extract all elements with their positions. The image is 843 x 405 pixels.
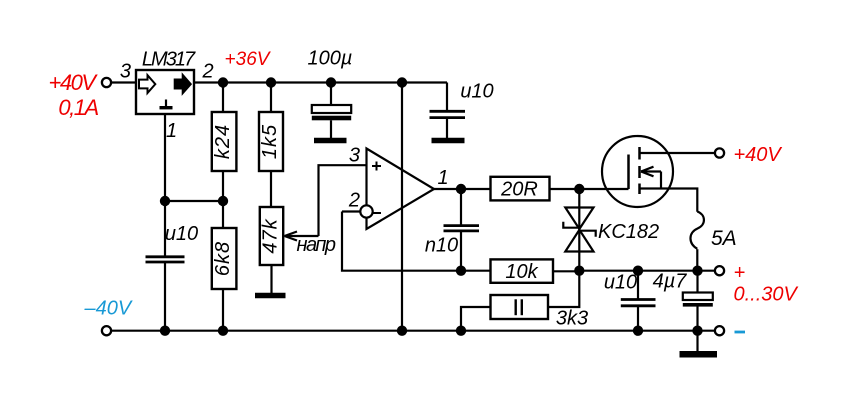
node rail u10-bottom: [633, 326, 643, 336]
node adjust-right: [218, 196, 228, 206]
wire k24 bottom leg: [222, 171, 224, 201]
terminal +40V right: [715, 148, 724, 157]
47k wiper arrow: [285, 232, 319, 241]
fuse 5A squiggle: [690, 212, 703, 249]
op-amp plus sign: [372, 162, 381, 171]
wire wiper riser to pin3: [319, 165, 367, 236]
svg-text:+: +: [734, 262, 746, 284]
capacitor u10 bottom legs: [637, 271, 639, 331]
svg-text:4µ7: 4µ7: [653, 271, 688, 293]
mosfet gate electrode: [627, 155, 630, 190]
LM317 output filled arrow: [175, 75, 191, 93]
svg-text:u10: u10: [604, 272, 637, 294]
op-amp U2 triangle: [367, 149, 435, 230]
svg-text:10k: 10k: [505, 261, 538, 283]
ground main: [680, 351, 718, 358]
node top k24: [218, 77, 228, 87]
label minus: [735, 331, 746, 334]
node adjust-left: [160, 196, 170, 206]
wire 1k5 to 47k: [270, 171, 272, 207]
wire input to LM317 pin 3: [111, 81, 136, 83]
svg-text:+40V: +40V: [49, 70, 99, 95]
svg-text:k24: k24: [212, 124, 234, 159]
terminal -40V: [102, 326, 111, 335]
svg-text:6k8: 6k8: [212, 241, 234, 276]
wire 10k row: [461, 270, 579, 273]
wire u10tr to ground: [446, 118, 448, 138]
node top supply: [397, 77, 407, 87]
svg-text:47k: 47k: [259, 218, 281, 253]
svg-text:+40V: +40V: [734, 144, 783, 166]
ground under u10 top-right: [432, 138, 465, 143]
capacitor u10 left: [146, 257, 185, 262]
ground under 100u: [314, 138, 347, 143]
svg-text:2: 2: [202, 61, 214, 83]
node output n10: [456, 184, 466, 194]
svg-text:LM317: LM317: [142, 49, 196, 71]
node feedback: [456, 266, 466, 276]
wire mosfet drain: [640, 152, 715, 154]
svg-text:KC182: KC182: [598, 221, 659, 243]
terminal input +40V: [102, 78, 111, 87]
svg-text:3k3: 3k3: [556, 308, 588, 330]
LM317 adjust symbol: [160, 100, 173, 110]
node gate-zener: [574, 184, 584, 194]
mosfet channel dashes: [638, 147, 641, 194]
node rail 3k3: [456, 326, 466, 336]
svg-text:напр: напр: [296, 234, 335, 256]
zener VD1 KC182 wire: [578, 189, 580, 271]
wire 20R to gate: [550, 188, 629, 190]
wire adjust row: [165, 200, 223, 202]
wire supply vertical: [401, 83, 403, 331]
svg-text:1: 1: [438, 167, 449, 189]
zener KC182 symbol: [563, 208, 595, 252]
node rail supply: [397, 326, 407, 336]
wire 3k3 left leg: [461, 307, 491, 331]
svg-text:u10: u10: [460, 81, 493, 103]
terminal minus output: [715, 326, 724, 335]
node rail ground: [692, 326, 702, 336]
svg-text:0,1A: 0,1A: [58, 95, 98, 120]
wire squiggle to plus: [696, 249, 698, 271]
regulator U1 LM317 body: [136, 70, 194, 114]
wire feedback pin2 down: [342, 212, 461, 271]
terminal plus output: [715, 266, 724, 275]
wire op-amp output: [434, 188, 490, 190]
resistor 1k5: [259, 112, 283, 171]
node top 100u: [326, 77, 336, 87]
wire 3k3 right leg: [548, 271, 579, 307]
wire 1k5 top leg: [270, 83, 272, 113]
svg-text:3: 3: [349, 145, 360, 167]
svg-text:5A: 5A: [711, 227, 737, 250]
wire 47k bottom leg: [270, 265, 272, 293]
wire output plus row: [579, 270, 715, 272]
wire 6k8 top leg: [222, 201, 224, 228]
wire k24 top leg: [222, 83, 224, 113]
transistor VT1 mosfet circle: [602, 136, 673, 207]
node rail 6k8: [218, 326, 228, 336]
node rail u10-left: [160, 326, 170, 336]
svg-text:20R: 20R: [500, 179, 538, 201]
op-amp minus sign: [372, 212, 381, 214]
wire ground stub: [696, 331, 698, 351]
wire LM317 pin1 leg: [164, 114, 166, 201]
node plus 4u7: [692, 266, 702, 276]
op-amp inverting bubble: [360, 205, 372, 217]
capacitor 100u leg: [330, 83, 332, 106]
ground under 47k: [255, 293, 286, 298]
capacitor u10 top-right: [430, 111, 466, 117]
resistor k24: [212, 112, 237, 171]
svg-text:3: 3: [120, 61, 131, 83]
resistor 10k: [491, 259, 554, 282]
wire bottom rail: [111, 330, 715, 332]
node zener bottom: [574, 266, 584, 276]
svg-text:u10: u10: [165, 223, 198, 245]
wire top rail +36V: [194, 81, 447, 83]
LM317 input open arrow: [139, 75, 155, 93]
wire u10 top-right leg: [446, 83, 448, 111]
resistor 20R: [491, 177, 550, 201]
svg-text:–40V: –40V: [84, 298, 133, 320]
wire 100u to ground: [330, 120, 332, 138]
mosfet substrate arrow: [641, 167, 661, 189]
wire pin2 stub: [342, 210, 360, 212]
capacitor 4u7 legs: [696, 271, 698, 331]
svg-text:1: 1: [166, 120, 177, 142]
svg-text:+36V: +36V: [225, 49, 272, 70]
resistor 3k3 2W: [491, 295, 549, 319]
capacitor n10 legs: [460, 189, 462, 271]
svg-text:0...30V: 0...30V: [734, 284, 799, 306]
capacitor 4u7 electrolytic: [683, 293, 713, 307]
potentiometer 47k: [260, 207, 283, 265]
capacitor u10 left legs: [164, 201, 166, 331]
svg-text:n10: n10: [425, 235, 458, 257]
node top 1k5: [266, 77, 276, 87]
wire 6k8 bottom leg: [222, 289, 224, 331]
wire mosfet source: [640, 189, 698, 212]
svg-text:100µ: 100µ: [308, 48, 353, 70]
node plus u10: [633, 266, 643, 276]
svg-text:2: 2: [348, 190, 360, 212]
resistor 6k8: [212, 228, 237, 289]
capacitor n10: [444, 226, 480, 231]
capacitor u10 bottom: [621, 300, 656, 306]
capacitor C 100u electrolytic: [312, 105, 351, 120]
svg-text:1k5: 1k5: [259, 124, 281, 159]
